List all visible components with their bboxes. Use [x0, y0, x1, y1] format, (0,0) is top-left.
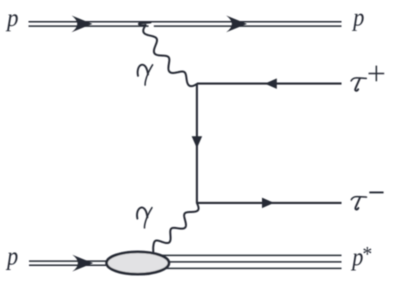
superscript minus of tau-	[369, 192, 383, 194]
wire tau- line	[197, 202, 342, 204]
label tau-	[351, 197, 366, 210]
wire tau+ line	[197, 83, 342, 85]
arrow on tau- line (points right)	[262, 198, 274, 209]
label p* (bottom left p)	[6, 252, 18, 270]
arrow on top proton line (left)	[72, 16, 93, 33]
label p* (bottom right)	[351, 247, 371, 271]
superscript plus of tau+	[369, 66, 385, 82]
arrow on top proton line (right)	[226, 16, 247, 33]
wire top proton double line (lower line broken at photon vertex)	[29, 22, 342, 26]
blob (proton dissociation vertex)	[107, 252, 169, 274]
photon gamma2 (bottom, from lower vertex to blob)	[153, 203, 198, 253]
wire internal tau propagator (vertical)	[196, 84, 198, 203]
wire dissociated proton triple line (right of blob)	[150, 255, 342, 268]
arrow on bottom proton line	[72, 255, 93, 272]
wire bottom proton double line (left of blob)	[29, 261, 120, 265]
label gamma (upper photon)	[138, 65, 153, 85]
label p (top left)	[6, 14, 18, 31]
arrow on tau+ line (points left toward vertex)	[265, 78, 277, 89]
arrow on internal line (points down)	[192, 136, 203, 148]
label tau+	[351, 78, 366, 91]
photon gamma1 (top, from proton line to upper vertex)	[139, 22, 197, 86]
label p (top right)	[352, 14, 364, 31]
label gamma (lower photon)	[137, 207, 152, 227]
